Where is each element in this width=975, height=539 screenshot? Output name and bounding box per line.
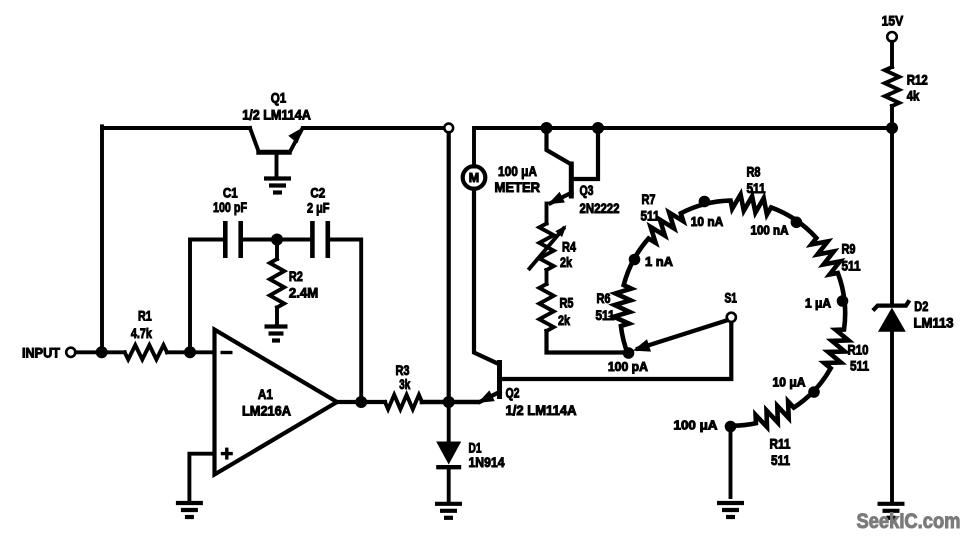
resistor R11 on range ring [731, 391, 814, 427]
wire R5 to 100pA node [547, 331, 625, 353]
svg-text:R12: R12 [907, 72, 928, 88]
wire 15V to R12 [890, 42, 894, 67]
svg-text:100 nA: 100 nA [751, 223, 789, 237]
wire input to R1 [76, 350, 125, 354]
svg-text:100 μA: 100 μA [498, 163, 537, 179]
svg-text:100 μA: 100 μA [674, 419, 718, 433]
R8 label [747, 163, 766, 196]
output terminal node [444, 124, 453, 133]
svg-text:LM216A: LM216A [242, 402, 291, 418]
R11 label [770, 436, 791, 469]
100 nA label [751, 223, 789, 237]
svg-text:1/2 LM114A: 1/2 LM114A [506, 402, 577, 418]
svg-text:2 μF: 2 μF [307, 199, 330, 215]
svg-text:511: 511 [850, 357, 869, 373]
op-amp A1 [215, 330, 338, 475]
svg-text:A1: A1 [258, 386, 273, 402]
INPUT label [22, 345, 60, 361]
svg-text:R11: R11 [770, 436, 791, 452]
R3 label [396, 362, 411, 392]
ground below R2 [265, 327, 288, 341]
svg-text:R5: R5 [560, 295, 574, 311]
svg-text:100 pF: 100 pF [213, 199, 247, 215]
svg-text:METER: METER [495, 179, 541, 195]
capacitor C1 [190, 221, 310, 352]
100 uA label [674, 419, 718, 433]
R9 label [842, 241, 861, 274]
junction dot right rail [886, 122, 898, 134]
wire 100uA node to ground [729, 427, 733, 498]
svg-text:511: 511 [842, 258, 861, 274]
svg-text:R9: R9 [842, 241, 856, 257]
svg-text:1/2 LM114A: 1/2 LM114A [242, 107, 311, 123]
svg-text:2.4M: 2.4M [289, 284, 318, 300]
svg-text:3k: 3k [399, 376, 410, 392]
1 uA label [805, 297, 831, 311]
node 1 nA [629, 254, 641, 266]
junction dot D1 node [443, 396, 455, 408]
node 100 uA [725, 421, 737, 433]
wire R1 to op-amp [167, 350, 215, 354]
wire terminal down to R3/D1 node [447, 133, 451, 402]
wire Q2 base to S1 [500, 323, 732, 380]
S1 selector arrow [633, 320, 727, 351]
svg-text:Q2: Q2 [506, 385, 520, 401]
resistor R6 on range ring [614, 259, 634, 353]
wire Q3 emitter to R4 [545, 204, 549, 224]
R5 label [558, 295, 574, 329]
svg-text:511: 511 [641, 208, 660, 224]
R12 label [907, 72, 928, 104]
wire R12 to rail junction [890, 106, 894, 128]
svg-text:R10: R10 [848, 342, 869, 358]
svg-text:1 nA: 1 nA [645, 255, 673, 269]
meter M1 100uA [463, 166, 486, 189]
input terminal [66, 348, 75, 357]
transistor Q2 [478, 360, 500, 403]
variable resistor R4 [530, 224, 567, 271]
wire left vertical input branch [100, 126, 104, 352]
resistor R12 [885, 67, 899, 106]
SeekIC watermark [857, 510, 961, 533]
ground below op-amp [176, 503, 203, 517]
wire top rail to 15V branch [474, 128, 890, 167]
wire R3 to Q2 emitter [422, 400, 477, 405]
wire meter to Q2 collector [474, 189, 499, 365]
A1 label [242, 386, 291, 418]
C1 label [213, 184, 247, 215]
resistor R8 on range ring [704, 194, 795, 219]
ground below Q1 [264, 179, 291, 193]
S1 label [724, 289, 737, 305]
node 1 uA [837, 295, 849, 307]
resistor R7 on range ring [634, 204, 704, 259]
R4 label [560, 238, 576, 270]
svg-text:R8: R8 [747, 163, 761, 179]
wire R4 to R5 [545, 270, 549, 284]
node 10 uA [808, 386, 820, 398]
wire Q1 emitter to output terminal [303, 126, 444, 130]
100 pA label [608, 360, 648, 374]
svg-text:2N2222: 2N2222 [580, 200, 620, 216]
resistor R9 on range ring [795, 219, 845, 300]
svg-text:10 nA: 10 nA [691, 215, 724, 229]
svg-text:1N914: 1N914 [469, 454, 505, 470]
svg-text:2k: 2k [558, 312, 570, 328]
svg-text:4k: 4k [907, 88, 920, 104]
resistor R1 [125, 345, 167, 359]
svg-text:C2: C2 [310, 184, 325, 200]
node 100 pA [623, 347, 635, 359]
R7 label [641, 191, 660, 224]
svg-text:511: 511 [771, 452, 790, 468]
15V supply terminal [887, 32, 897, 42]
junction node C1-C2-R2 [271, 234, 283, 246]
capacitor C2 [312, 221, 361, 402]
svg-text:R6: R6 [597, 290, 611, 306]
svg-text:511: 511 [596, 307, 615, 323]
svg-text:D2: D2 [914, 298, 928, 314]
resistor R3 [385, 395, 422, 409]
resistor R2 [270, 240, 284, 326]
junction dot input branch [96, 346, 108, 358]
ground below D1 [435, 504, 462, 518]
svg-text:R2: R2 [289, 268, 303, 284]
svg-text:511: 511 [747, 180, 766, 196]
junction dot Q3 collector rail [541, 122, 553, 134]
D2 label [914, 298, 954, 331]
C2 label [307, 184, 330, 215]
svg-text:R1: R1 [138, 308, 152, 324]
ground below D2 [878, 504, 905, 518]
D1 label [469, 440, 505, 470]
svg-text:100 pA: 100 pA [608, 360, 648, 374]
Q1 label [242, 89, 311, 122]
15V label [882, 12, 904, 28]
svg-text:S1: S1 [724, 289, 737, 305]
R10 label [848, 342, 870, 374]
R2 label [289, 268, 318, 301]
svg-text:M: M [469, 171, 479, 185]
wire noninverting input to ground [189, 454, 214, 502]
junction dot feedback node [355, 396, 367, 408]
node 10 nA [699, 196, 711, 208]
wire rail down to D2 [890, 128, 894, 304]
meter label [495, 163, 541, 195]
junction dot Q3 base rail [592, 122, 604, 134]
10 nA label [691, 215, 724, 229]
svg-text:Q1: Q1 [271, 89, 287, 105]
R1 label [131, 308, 152, 341]
junction dot inverting input [184, 346, 196, 358]
svg-text:4.7k: 4.7k [131, 325, 152, 341]
svg-text:2k: 2k [560, 254, 572, 270]
svg-text:Q3: Q3 [580, 182, 594, 198]
svg-text:15V: 15V [882, 12, 904, 28]
resistor R10 on range ring [814, 301, 849, 392]
Q3 label [580, 182, 620, 216]
zener diode D2 [873, 300, 910, 502]
transistor Q1 [250, 127, 303, 176]
10 uA label [773, 376, 806, 390]
svg-text:SeekIC.com: SeekIC.com [857, 510, 961, 533]
transistor Q3 [547, 128, 599, 204]
ground below 100uA node [717, 503, 744, 517]
svg-text:LM113: LM113 [914, 315, 954, 331]
Q2 label [506, 385, 577, 419]
wire top-left horizontal [102, 126, 250, 130]
R6 label [596, 290, 615, 323]
1 nA label [645, 255, 673, 269]
node 100 nA [791, 217, 803, 229]
svg-text:10 μA: 10 μA [773, 376, 806, 390]
svg-text:R7: R7 [642, 191, 656, 207]
svg-text:INPUT: INPUT [22, 345, 60, 361]
svg-text:R4: R4 [562, 238, 576, 254]
wire op-amp output [335, 400, 385, 404]
resistor R5 [539, 284, 553, 331]
svg-text:1 μA: 1 μA [805, 297, 831, 311]
switch S1 pole [727, 313, 736, 322]
diode D1 [436, 402, 461, 502]
